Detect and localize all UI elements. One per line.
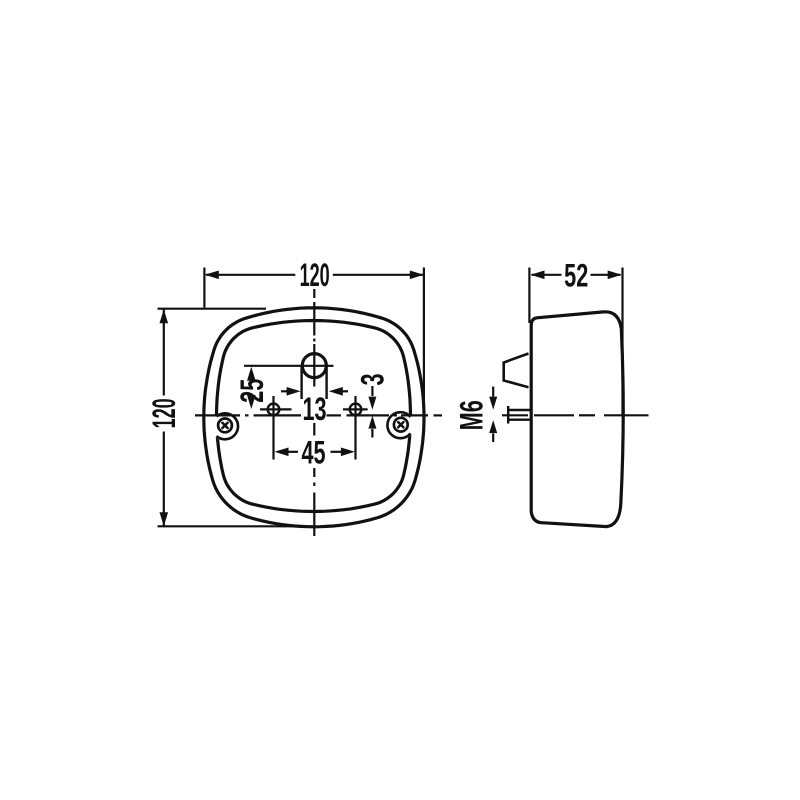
- svg-text:52: 52: [564, 257, 588, 294]
- svg-text:3: 3: [354, 373, 391, 385]
- svg-text:120: 120: [300, 256, 330, 293]
- svg-text:45: 45: [301, 434, 325, 471]
- svg-text:M6: M6: [453, 400, 490, 430]
- svg-text:13: 13: [302, 391, 326, 428]
- svg-text:25: 25: [234, 379, 271, 403]
- svg-text:120: 120: [145, 398, 182, 428]
